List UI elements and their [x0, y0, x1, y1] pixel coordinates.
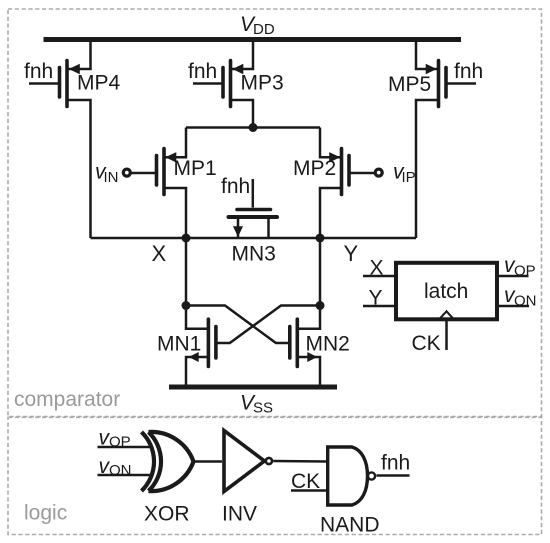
VSS label: [240, 392, 273, 417]
MP5 source wire: [416, 42, 438, 69]
MP4 gate wire: [29, 82, 58, 85]
svg-text:IN: IN: [104, 169, 119, 186]
svg-text:X: X: [370, 257, 384, 280]
svg-text:MP4: MP4: [77, 72, 121, 95]
label vIN: [95, 161, 119, 187]
MP4 drain wire: [69, 100, 91, 238]
latch input Y wire: [363, 305, 394, 308]
svg-text:DD: DD: [253, 21, 275, 38]
svg-text:fnh: fnh: [24, 60, 53, 83]
comparator box border: [8, 9, 542, 417]
svg-text:OP: OP: [109, 434, 131, 451]
INV to NAND wire: [273, 460, 327, 463]
NAND gate: [328, 447, 375, 505]
XOR gate: [142, 432, 194, 491]
svg-text:SS: SS: [253, 400, 273, 417]
label vOP: [504, 254, 536, 280]
svg-text:Y: Y: [369, 287, 383, 310]
svg-text:logic: logic: [24, 502, 67, 525]
MP4 source wire: [68, 40, 91, 70]
MP1 gate wire: [131, 172, 156, 175]
svg-text:CK: CK: [412, 332, 441, 355]
node X junction: [182, 234, 191, 243]
svg-text:CK: CK: [291, 470, 320, 493]
MN3 gate wire: [252, 179, 255, 208]
MN2 source wire: [298, 357, 320, 387]
VDD label: [240, 13, 275, 38]
MP3 drain wire: [232, 100, 253, 128]
MP3 source wire: [232, 42, 254, 69]
transistor MN1: [189, 319, 216, 366]
MN3 source wire: [237, 218, 240, 238]
svg-text:ON: ON: [109, 462, 132, 479]
svg-text:ON: ON: [514, 293, 537, 310]
MP3 gate wire: [193, 82, 222, 85]
svg-text:fnh: fnh: [188, 60, 217, 83]
MN1 drain wire: [186, 306, 208, 329]
MP5 gate wire: [448, 82, 477, 85]
svg-text:fnh: fnh: [381, 452, 410, 475]
transistor MN3: [229, 210, 278, 238]
MP2 source wire: [320, 128, 341, 158]
svg-text:MP3: MP3: [241, 72, 284, 95]
MP5 drain wire: [416, 100, 437, 238]
label vIP: [393, 161, 416, 187]
transistor MP2: [329, 149, 349, 195]
svg-text:XOR: XOR: [144, 503, 190, 526]
NAND CK input wire: [291, 489, 327, 492]
XOR input vON wire: [98, 474, 153, 477]
VDD rail: [44, 37, 462, 42]
transistor MP5: [426, 61, 446, 107]
latch input X wire: [363, 275, 394, 278]
node Y junction: [316, 234, 325, 243]
svg-text:MN3: MN3: [232, 243, 276, 266]
MN1 source wire: [186, 357, 208, 387]
latch output vOP wire: [498, 275, 529, 278]
logic box border: [8, 417, 542, 534]
NAND output wire: [377, 474, 410, 477]
MP1 source wire: [165, 128, 186, 158]
MN3 drain wire: [267, 218, 270, 238]
junction dot tail node: [249, 123, 258, 132]
X drop wire: [185, 238, 188, 306]
junction X2: [182, 301, 191, 310]
latch block: [396, 263, 497, 320]
Y drop wire: [319, 238, 322, 306]
svg-text:NAND: NAND: [320, 514, 380, 537]
X-Y rail wire: [91, 237, 417, 240]
svg-text:fnh: fnh: [454, 60, 483, 83]
svg-text:Y: Y: [344, 241, 359, 266]
XOR input vOP wire: [98, 446, 153, 449]
svg-text:comparator: comparator: [14, 388, 120, 411]
svg-text:OP: OP: [514, 263, 536, 280]
svg-text:INV: INV: [222, 503, 257, 526]
latch output vON wire: [498, 305, 529, 308]
svg-text:MP1: MP1: [174, 157, 217, 180]
transistor MP4: [60, 61, 80, 107]
VSS rail: [169, 385, 337, 390]
inverter INV: [224, 431, 272, 492]
label vOP (XOR): [99, 427, 131, 451]
MN2 gate wire + cross-couple to X: [186, 306, 289, 344]
svg-text:MP2: MP2: [293, 157, 336, 180]
svg-text:MP5: MP5: [388, 73, 431, 96]
svg-text:X: X: [152, 241, 167, 266]
latch CK wire: [445, 321, 448, 350]
MN1 gate wire + cross-couple to Y: [217, 306, 320, 344]
MP2 drain wire: [320, 188, 340, 238]
label vON: [504, 284, 537, 310]
svg-text:MN2: MN2: [306, 333, 350, 356]
svg-text:MN1: MN1: [157, 333, 201, 356]
vIN input terminal: [123, 169, 130, 176]
junction Y2: [316, 301, 325, 310]
transistor MN2: [290, 319, 318, 366]
tail node wire (MP3 drain to MP1/MP2 sources): [186, 126, 320, 129]
svg-text:IP: IP: [402, 169, 416, 186]
svg-text:latch: latch: [424, 280, 468, 303]
MP1 drain wire: [166, 188, 187, 238]
transistor MP1: [157, 149, 177, 195]
MP2 gate wire: [351, 172, 376, 175]
transistor MP3: [223, 61, 243, 107]
XOR to INV wire: [194, 460, 223, 463]
vIP input terminal: [375, 169, 382, 176]
label vON (XOR): [99, 455, 132, 479]
latch clock wedge: [440, 311, 453, 318]
MN2 drain wire: [298, 306, 320, 329]
svg-text:fnh: fnh: [221, 175, 250, 198]
